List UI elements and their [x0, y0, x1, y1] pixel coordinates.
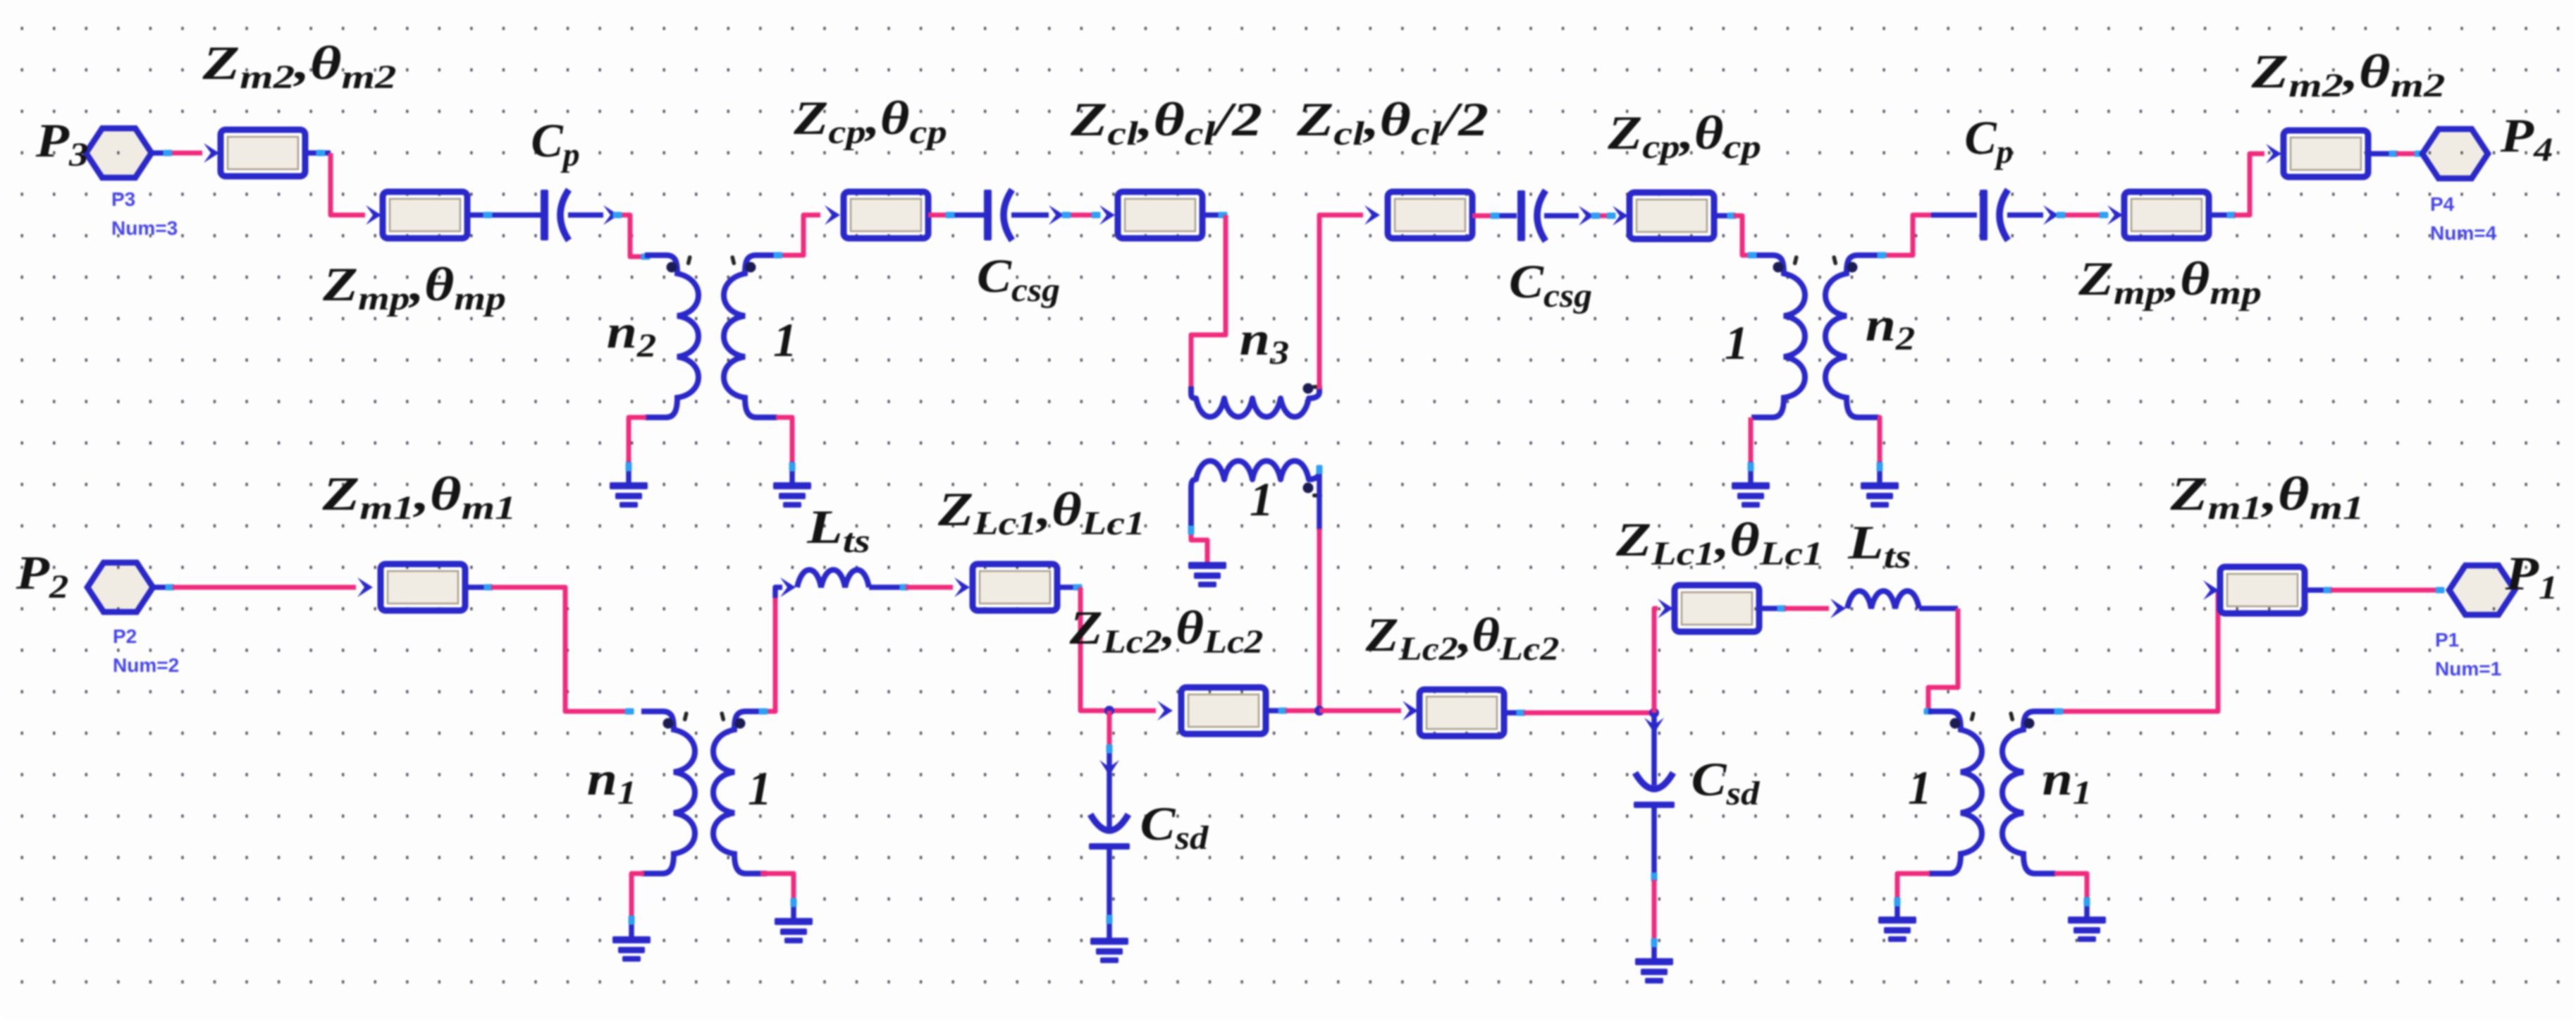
wire: [1317, 467, 1322, 530]
wire: [1057, 584, 1080, 590]
transmission line Zcl/2 (right): [1388, 192, 1472, 238]
capacitor Ccsg (left): [984, 190, 1012, 240]
svg-text:P1: P1: [2435, 629, 2459, 651]
wire: [629, 417, 646, 463]
wire: [1651, 807, 1657, 881]
wire: [465, 584, 491, 590]
wire: [1544, 213, 1579, 219]
wire: [2007, 212, 2043, 218]
wire: [928, 213, 951, 218]
wire arrow: [2107, 205, 2123, 225]
wire: [791, 900, 796, 919]
wire: [1894, 899, 1900, 918]
svg-text:P2: P2: [113, 625, 137, 647]
wire: [1317, 529, 1322, 711]
svg-text:Zcl,θcl/2: Zcl,θcl/2: [1296, 92, 1489, 152]
ground: [775, 918, 813, 943]
transmission line Zcp (right): [1629, 192, 1714, 239]
wire: [626, 462, 631, 484]
node junction mid: [1314, 706, 1324, 716]
label Ccsg right: [1509, 255, 1592, 314]
wire: [1107, 849, 1112, 939]
wire: [1714, 213, 1734, 219]
wire: [1654, 608, 1658, 713]
wire arrow: [357, 577, 373, 597]
wire arrow: [1613, 206, 1628, 226]
label n3: [1240, 312, 1289, 372]
transformer coil 1 (middle): [1191, 461, 1319, 529]
node junction right: [1649, 708, 1659, 718]
ground: [1188, 562, 1226, 587]
wire arrow: [1099, 205, 1115, 225]
svg-text:1: 1: [1908, 761, 1932, 814]
label Ccsg: [977, 250, 1060, 308]
label Zm2 right: [2250, 45, 2445, 104]
wire arrow: [2266, 144, 2281, 164]
wire: [1878, 417, 1880, 463]
svg-text:1: 1: [1725, 316, 1749, 369]
label Zmp right: [2078, 252, 2262, 312]
label Cp right: [1964, 111, 2013, 171]
wire: [2059, 213, 2106, 218]
transmission line ZLc2 (right): [1419, 690, 1504, 736]
svg-text:Num=2: Num=2: [113, 654, 179, 676]
transformer coil 1 (bottom-right): [1928, 711, 1982, 874]
wire arrow: [603, 205, 619, 225]
wire arrow: [1364, 205, 1380, 225]
transmission line Zmp (right): [2124, 192, 2209, 238]
wire: [2054, 874, 2087, 900]
wire arrow: [366, 205, 381, 225]
transmission line ZLc1 (right): [1675, 585, 1759, 632]
wire: [1879, 215, 1931, 255]
label ZLc2 right: [1365, 608, 1560, 668]
phase dot n3: [1303, 384, 1314, 394]
label P1 name: [2505, 546, 2558, 606]
port P2: [87, 563, 153, 612]
ground: [1878, 917, 1916, 942]
wire: [1748, 252, 1757, 259]
wire: [172, 151, 202, 156]
wire: [1493, 213, 1517, 219]
wire: [1919, 606, 1958, 611]
wire: [1191, 215, 1226, 388]
svg-text:1: 1: [1250, 472, 1274, 526]
ground: [1635, 958, 1673, 984]
ground: [610, 482, 648, 508]
wire: [1319, 709, 1401, 713]
wire: [631, 874, 644, 918]
wire: [1759, 606, 1785, 611]
wire: [467, 212, 541, 218]
transmission line Zm1 (left): [381, 564, 465, 611]
transmission line ZLc1 (left): [973, 564, 1057, 611]
component fills: [218, 127, 308, 179]
label Zcl/2 right: [1296, 92, 1489, 152]
wire arrow: [1658, 599, 1673, 618]
label ZLc1 right: [1615, 514, 1823, 572]
label P3 name: [35, 114, 89, 173]
capacitor Ccsg (right): [1517, 190, 1546, 241]
wire: [2331, 588, 2441, 593]
label Csd left: [1140, 797, 1209, 856]
wire: [1651, 713, 1657, 785]
wire arrow: [1099, 760, 1119, 776]
label ZLc1 left: [937, 484, 1145, 542]
ground: [1732, 482, 1770, 508]
wire: [1524, 711, 1654, 716]
svg-text:P4: P4: [2430, 193, 2455, 215]
wire: [1011, 212, 1049, 218]
wire: [1319, 215, 1363, 389]
wire arrow: [1644, 718, 1664, 733]
wire arrow: [1049, 205, 1064, 225]
port P4: [2422, 129, 2488, 178]
svg-text:Num=3: Num=3: [111, 217, 178, 239]
wire: [776, 417, 792, 463]
wire: [1897, 874, 1930, 900]
port P1: [2449, 565, 2515, 615]
label Zcl/2: [1070, 92, 1262, 152]
label n1 right: [2042, 752, 2092, 811]
wire arrow: [954, 577, 970, 597]
ground: [612, 936, 651, 962]
wire arrow: [2043, 205, 2059, 225]
wire: [2209, 212, 2234, 218]
wire: [2234, 154, 2264, 215]
label 1 bottom-right: [1908, 761, 1932, 814]
ground: [1861, 482, 1899, 508]
wire: [629, 917, 634, 938]
transmission line Zm2 (right): [2284, 130, 2368, 177]
wire: [2305, 587, 2331, 593]
svg-text:Num=1: Num=1: [2435, 658, 2501, 680]
label 1: [773, 313, 797, 367]
wire: [1928, 608, 1958, 711]
wire: [789, 462, 795, 484]
wire: [869, 584, 906, 590]
label Zm1 right: [2169, 467, 2364, 527]
transmission line Zm2 (left): [221, 130, 305, 176]
label 1 right: [1725, 316, 1749, 369]
label Cp: [531, 114, 579, 173]
label Csd right: [1691, 753, 1761, 811]
phase dot 1: [1303, 483, 1314, 494]
transmission line Zcp (left): [844, 192, 928, 238]
inductor Lts (right): [1847, 591, 1919, 608]
wire: [173, 585, 356, 590]
wire arrow: [1157, 701, 1173, 721]
wire: [951, 212, 984, 218]
wire: [2084, 899, 2090, 918]
wire: [775, 587, 782, 598]
label Zcp: [793, 92, 947, 151]
wire: [1504, 710, 1524, 716]
wire: [1734, 216, 1751, 255]
wire: [2368, 151, 2396, 157]
wire: [1286, 709, 1319, 713]
wire: [760, 874, 794, 901]
wire arrow: [204, 143, 219, 163]
transmission line Zcl (left): [1118, 192, 1202, 238]
ground: [1090, 938, 1128, 963]
transformer coil 1 (top-right): [1751, 255, 1805, 417]
transmission line ZLc2 (left): [1181, 687, 1266, 734]
capacitor Csd (left): [1089, 814, 1130, 850]
wire: [153, 584, 173, 590]
wire: [1749, 417, 1754, 463]
wire arrow: [1579, 206, 1594, 226]
wire: [1785, 606, 1829, 611]
label Zm1: [321, 467, 516, 527]
transformer coil n1 (bottom-left): [641, 711, 695, 874]
label Zm2: [202, 37, 396, 96]
transformer coil n1 (bottom-right): [2002, 711, 2056, 874]
wire: [1191, 529, 1207, 563]
wire arrow: [1403, 701, 1418, 721]
svg-text:1: 1: [773, 313, 797, 367]
wire: [1877, 462, 1882, 484]
transformer coil n3: [1191, 386, 1319, 417]
wire: [1651, 940, 1657, 960]
capacitor Cp (left): [541, 190, 569, 240]
wire: [619, 215, 643, 257]
wire: [1931, 212, 1977, 218]
svg-text:1: 1: [748, 761, 772, 815]
transformer coil n2 (top-right): [1825, 255, 1879, 417]
wire: [331, 153, 365, 215]
wire: [906, 585, 953, 590]
label Lts right: [1847, 516, 1911, 575]
wire: [777, 215, 820, 255]
label Lts: [806, 501, 870, 560]
port P3: [86, 128, 152, 178]
transformer coil n2 (top-left): [645, 255, 698, 417]
label n2 right: [1866, 298, 1915, 357]
wire arrow: [1830, 599, 1846, 618]
wire: [1202, 212, 1226, 218]
transmission line Zm1 (right): [2220, 567, 2305, 613]
wire arrow: [780, 577, 796, 597]
wire: [1107, 711, 1112, 749]
ground: [2068, 917, 2106, 942]
svg-text:Num=4: Num=4: [2430, 222, 2497, 244]
svg-text:P3: P3: [111, 188, 135, 210]
transformer coil 1 (bottom-left): [713, 711, 767, 874]
inductor Lts (left): [797, 570, 869, 587]
wire: [305, 150, 331, 156]
wire: [1652, 880, 1657, 941]
label ZLc2 left: [1069, 601, 1264, 661]
label P2 name: [16, 546, 69, 606]
svg-text:Zcl,θcl/2: Zcl,θcl/2: [1070, 92, 1262, 152]
label 1: [1250, 472, 1274, 526]
wire: [625, 709, 634, 715]
node junction: [1104, 706, 1114, 716]
label n1: [587, 752, 636, 811]
wire: [1472, 214, 1493, 219]
wire: [1266, 708, 1286, 713]
label 1 bottom-left: [748, 761, 772, 815]
ground: [773, 482, 811, 508]
wire: [1748, 462, 1754, 484]
label Zcp right: [1607, 107, 1761, 166]
wire: [568, 212, 603, 218]
wire: [491, 587, 628, 711]
label Zmp: [322, 258, 506, 317]
wire: [1064, 213, 1098, 218]
wire: [1594, 214, 1613, 219]
wire: [2396, 152, 2420, 157]
label P4 name: [2500, 109, 2553, 169]
wire: [1080, 587, 1156, 711]
capacitor Cp (right): [1980, 190, 2008, 240]
wire: [150, 150, 172, 156]
wire: [762, 596, 775, 711]
wire: [2056, 590, 2218, 711]
wire arrow: [825, 205, 840, 225]
wire arrow: [2203, 580, 2219, 600]
capacitor Csd (right): [1634, 773, 1675, 808]
label n2: [607, 305, 656, 365]
transformer coil 1 (top-left): [724, 255, 777, 417]
transmission line Zmp (left): [383, 192, 467, 238]
